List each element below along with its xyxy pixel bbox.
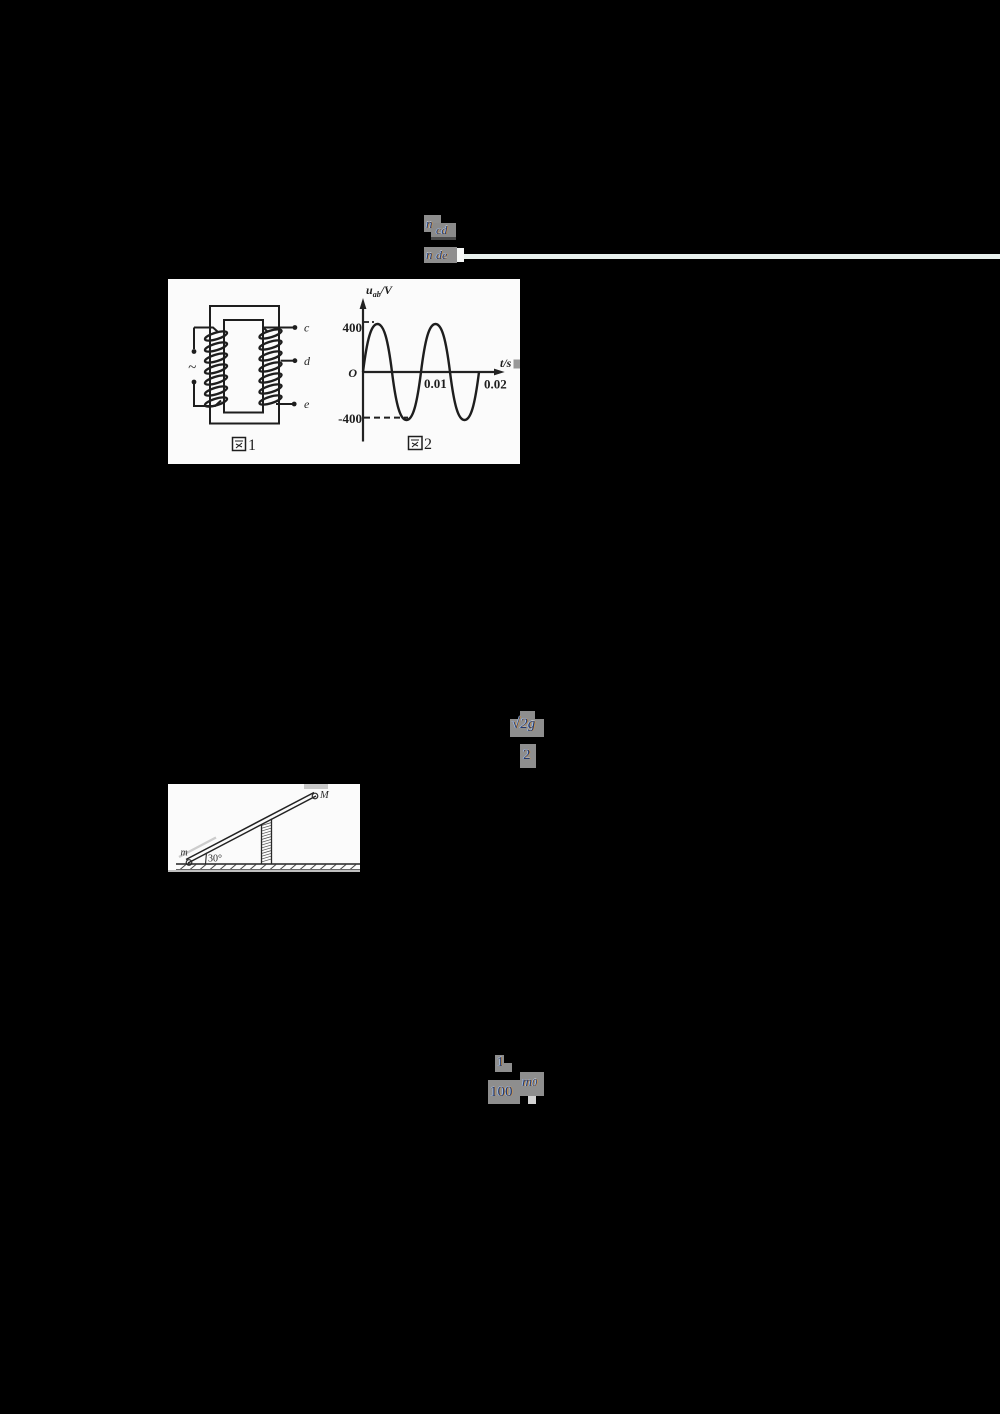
wire from terminal a to top of primary <box>194 328 218 350</box>
transformer core inner rectangle <box>224 320 263 413</box>
ground hatching <box>180 865 356 870</box>
svg-text:400: 400 <box>343 320 363 335</box>
thin light rule to right edge <box>464 254 1000 260</box>
secondary tap wire to d <box>281 360 295 362</box>
svg-text:e: e <box>304 397 310 411</box>
inclined rod (two parallel edges) <box>186 793 314 860</box>
svg-text:-400: -400 <box>338 411 362 426</box>
secondary winding (right coil) <box>259 327 283 406</box>
caption 图1 : boxed glyph <box>233 438 246 451</box>
white block at line start <box>457 248 464 262</box>
lower ground line <box>176 869 360 871</box>
wire from terminal b to bottom of primary <box>194 384 221 406</box>
formula F2: sqrt(2) g over 2 <box>520 711 535 720</box>
caption 图2 : boxed glyph <box>409 437 423 450</box>
svg-text:uab/V: uab/V <box>366 283 393 299</box>
formula F1: fraction n_cd / n_de <box>424 215 441 232</box>
svg-text:0.02: 0.02 <box>484 377 507 392</box>
svg-text:1: 1 <box>248 437 256 454</box>
graph x-axis <box>363 371 498 373</box>
gray strip at panel bottom <box>168 870 360 872</box>
pillar outline <box>262 819 272 865</box>
primary winding (left coil) <box>204 329 228 408</box>
svg-text:0.01: 0.01 <box>424 376 447 391</box>
formula F3: 1/100 m_0 <box>495 1055 504 1071</box>
gray block at panel right edge <box>514 360 521 369</box>
angle mark <box>206 853 207 865</box>
terminal c dot <box>293 325 298 330</box>
fraction bar <box>431 237 456 240</box>
faint plank shadow <box>179 838 216 858</box>
terminal a dot <box>192 349 197 354</box>
svg-text:d: d <box>304 354 311 368</box>
svg-text:t/s: t/s <box>500 356 512 370</box>
figure panel 2 : rod on incline (M, m, 30°) <box>168 784 360 872</box>
secondary tap wire to e <box>276 403 294 405</box>
svg-text:O: O <box>348 366 357 380</box>
terminal b dot <box>192 380 197 385</box>
denominator n_de <box>424 247 457 263</box>
secondary tap wire to c <box>263 328 295 332</box>
svg-text:~: ~ <box>188 360 196 376</box>
ground line <box>176 863 360 865</box>
ring at top end (M) <box>312 793 318 799</box>
terminal d dot <box>293 358 298 363</box>
svg-text:c: c <box>304 321 310 335</box>
sine curve u_ab <box>363 324 479 420</box>
svg-text:M: M <box>319 790 330 801</box>
support pillar hatched <box>262 823 272 862</box>
graph y-axis <box>362 306 364 442</box>
svg-text:30°: 30° <box>208 854 222 865</box>
gray block top-right <box>304 784 328 789</box>
figure panel 1 : transformer (图1) and sine graph (图2) <box>168 279 520 464</box>
ring at bottom end (m) <box>186 860 192 866</box>
terminal e dot <box>292 402 297 407</box>
svg-text:m: m <box>181 848 188 859</box>
svg-text:2: 2 <box>424 436 432 453</box>
transformer core outer rectangle <box>210 306 279 424</box>
dashed line at -400 level <box>364 417 408 419</box>
400 tick dash <box>364 321 374 323</box>
